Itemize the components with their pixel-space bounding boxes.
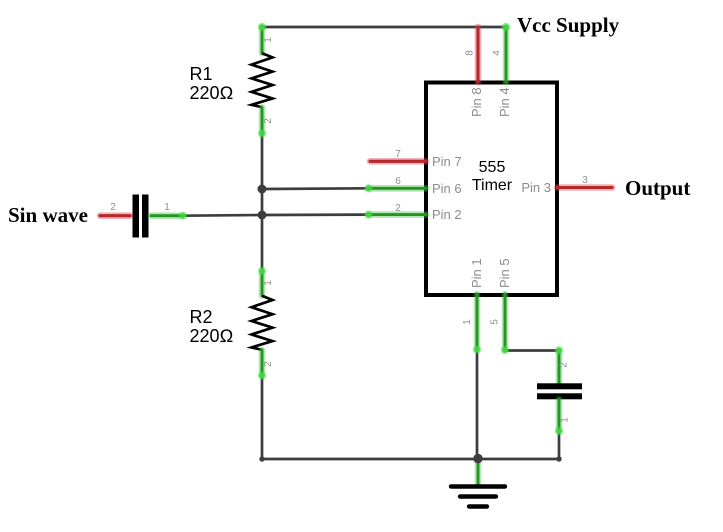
svg-text:Pin 4: Pin 4 <box>497 87 512 117</box>
resistor R2 <box>252 267 273 380</box>
U1 pin 4 leg (green) <box>502 23 511 82</box>
pin 7 wire number <box>395 149 401 160</box>
svg-text:555: 555 <box>479 159 506 176</box>
C2 pin number 2 <box>559 362 570 368</box>
U1 pin 5 leg (green, down) <box>501 294 509 354</box>
svg-text:R2: R2 <box>190 307 213 327</box>
net label: Output <box>625 176 690 200</box>
svg-text:Pin 2: Pin 2 <box>432 207 462 222</box>
wire: pin 1 leg extension down to ground junction <box>476 350 479 459</box>
U1 pin 4 label <box>497 87 512 117</box>
junction B (C1 / pin 2 node) <box>258 211 267 220</box>
U1 pin 7 label <box>432 154 462 169</box>
svg-text:2: 2 <box>263 361 274 367</box>
wire: vertical R1 bottom to junction A <box>261 133 264 189</box>
U1 pin 1 label <box>469 258 484 288</box>
svg-text:Sin wave: Sin wave <box>8 203 88 227</box>
pin 8 wire number <box>465 50 476 56</box>
resistor R1 <box>252 23 273 138</box>
pin 2 wire number <box>395 203 401 214</box>
svg-text:Vcc Supply: Vcc Supply <box>517 13 620 37</box>
wire: vertical junction A to junction B <box>261 189 264 215</box>
svg-text:Timer: Timer <box>472 177 513 194</box>
pin 6 wire number <box>395 176 401 187</box>
wire: pin 5 leg to capacitor C2 horizontal <box>505 349 559 352</box>
U1 pin 2 leg (green) <box>364 210 426 218</box>
R2 pin number 1 <box>263 280 274 286</box>
svg-text:1: 1 <box>462 319 473 325</box>
svg-text:R1: R1 <box>190 64 213 84</box>
wire: bottom rail horizontal <box>262 456 562 461</box>
wire: top horizontal rail (R1 top to pin 4) <box>262 26 506 29</box>
svg-text:Pin 6: Pin 6 <box>432 181 462 196</box>
net label: Vcc Supply <box>517 13 620 37</box>
svg-text:2: 2 <box>395 203 401 214</box>
U1 pin 8 label <box>469 87 484 117</box>
junction: ground node <box>473 454 482 463</box>
svg-text:6: 6 <box>395 176 401 187</box>
net label: Sin wave <box>8 203 88 227</box>
U1 pin 1 leg (green, down) <box>473 294 481 354</box>
pin 3 wire number <box>582 175 588 186</box>
wire: capacitor C1 to junction B <box>183 214 262 217</box>
svg-text:8: 8 <box>465 50 476 56</box>
svg-text:2: 2 <box>559 362 570 368</box>
svg-text:220Ω: 220Ω <box>190 326 234 346</box>
wire: vertical junction B down to R2 top <box>261 215 264 271</box>
wire: capacitor C2 bottom to bottom rail <box>558 431 561 459</box>
R1 value label <box>190 64 234 103</box>
svg-text:3: 3 <box>582 175 588 186</box>
capacitor C2 (control voltage) <box>537 346 582 435</box>
IC U1: 555 timer body <box>426 83 557 296</box>
U1 pin 3 leg (red, output) <box>557 184 612 191</box>
U1 pin 5 label <box>497 258 512 288</box>
wire: junction B to pin 2 leg <box>262 213 368 216</box>
svg-text:1: 1 <box>560 417 571 423</box>
capacitor C1 (input coupling) <box>100 195 187 238</box>
svg-text:4: 4 <box>492 50 503 56</box>
pin 1 wire number <box>462 319 473 325</box>
svg-text:1: 1 <box>164 202 170 213</box>
C1 pin number 2 <box>110 202 116 213</box>
pin 5 wire number <box>490 319 501 325</box>
svg-text:1: 1 <box>263 37 274 43</box>
pin 4 wire number <box>492 50 503 56</box>
wire: vertical R2 bottom to bottom rail <box>259 376 264 462</box>
R1 pin number 1 <box>263 37 274 43</box>
R1 pin number 2 <box>263 118 274 124</box>
svg-text:Pin 7: Pin 7 <box>432 154 462 169</box>
svg-text:Pin 5: Pin 5 <box>497 258 512 288</box>
U1 pin 6 label <box>432 181 462 196</box>
R2 pin number 2 <box>263 361 274 367</box>
svg-text:5: 5 <box>490 319 501 325</box>
svg-text:Pin 1: Pin 1 <box>469 258 484 288</box>
wire: junction A to pin 6 leg <box>262 187 368 190</box>
C2 pin number 1 <box>560 417 571 423</box>
svg-text:7: 7 <box>395 149 401 160</box>
U1 pin 3 label <box>521 180 551 195</box>
U1 pin 7 leg (red stub) <box>370 158 426 165</box>
C1 pin number 1 <box>164 202 170 213</box>
U1 pin 6 leg (green) <box>364 184 426 192</box>
junction A (R1 / pin 6 node) <box>258 185 267 194</box>
svg-text:Pin 8: Pin 8 <box>469 87 484 117</box>
svg-text:Pin 3: Pin 3 <box>521 180 551 195</box>
svg-text:2: 2 <box>110 202 116 213</box>
svg-text:2: 2 <box>263 118 274 124</box>
ground <box>451 459 505 507</box>
U1 pin 8 leg (red, to Vcc rail) <box>475 27 482 82</box>
svg-text:1: 1 <box>263 280 274 286</box>
svg-text:Output: Output <box>625 176 690 200</box>
svg-text:220Ω: 220Ω <box>190 83 234 103</box>
U1 pin 2 label <box>432 207 462 222</box>
R2 value label <box>190 307 234 346</box>
